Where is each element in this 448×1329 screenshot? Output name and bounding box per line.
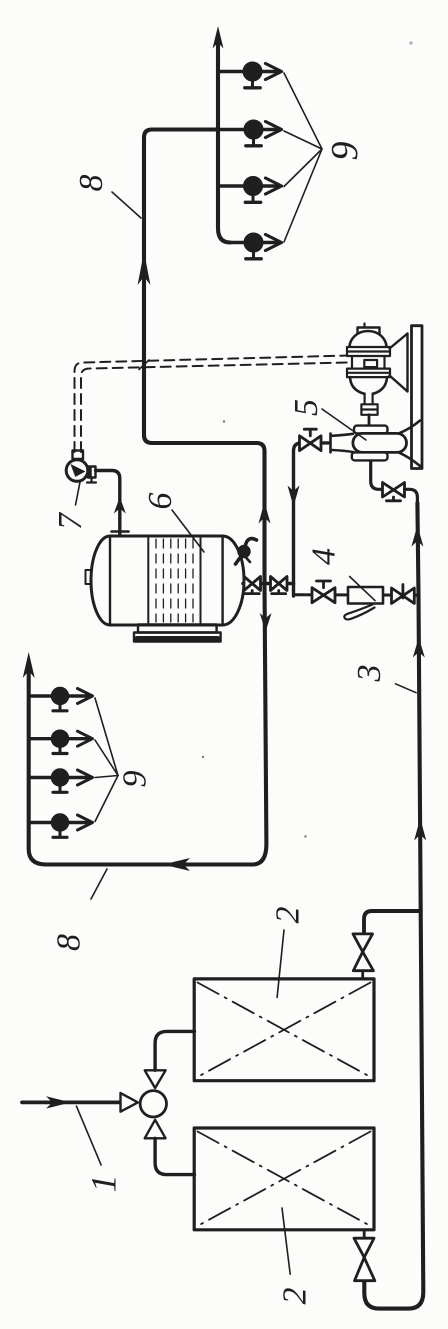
- wire: pipe 8 (upper run from tank riser to spray header): [144, 130, 265, 584]
- flow arrow (left) on return run: [163, 858, 190, 871]
- regulator 5: mid section with inner block: [352, 356, 385, 369]
- leader line for label 1: [76, 1106, 101, 1165]
- impulse line (dashed, outer) from gauge 7 to regulator 5: [75, 356, 349, 453]
- flow arrow (up) on pipe 3 lower: [414, 818, 426, 841]
- sprinkler nozzle (lower group, branch 3): [51, 769, 92, 793]
- svg-text:4: 4: [306, 548, 343, 565]
- upper cone of splitter 1: [145, 1070, 166, 1088]
- wire: branch 3 (lower group): [29, 776, 91, 779]
- regulator 5: upper flange: [347, 347, 390, 356]
- tank 6 support base: [134, 625, 221, 642]
- svg-text:9: 9: [116, 771, 153, 788]
- lower cone of splitter 1: [145, 1120, 166, 1139]
- valve VE1 above upper heat exchanger: [353, 934, 373, 979]
- flow arrow on top riser: [213, 26, 224, 49]
- mixer circle 1: [140, 1091, 166, 1117]
- wire: branch 3 (top group): [218, 184, 280, 187]
- tank 6 hatch lines: [156, 539, 193, 622]
- valve V4 on bypass: [392, 585, 415, 604]
- leader line for label 8 (lower): [91, 869, 107, 899]
- sprinkler nozzle (lower group, branch 4): [51, 814, 92, 838]
- flange tick on tank nozzle: [112, 530, 129, 533]
- svg-text:2: 2: [277, 1288, 314, 1305]
- wire: raw water inlet line: [22, 1101, 121, 1105]
- leader line for label 7: [76, 482, 81, 505]
- tank 6 hatch band edges: [148, 538, 200, 624]
- flow arrow (down) below junction: [260, 613, 272, 632]
- sprinkler nozzle (top group, branch 2): [244, 120, 282, 146]
- sprinkler nozzle (top group, branch 3): [244, 177, 282, 203]
- wire: branch 4 (top group): [229, 241, 280, 244]
- wire: spray header riser (top group): [218, 42, 230, 243]
- regulator 5: packing block: [361, 404, 377, 415]
- svg-text:6: 6: [142, 493, 179, 510]
- leader line for label 3: [396, 684, 417, 693]
- wire: bypass line with pressure reducer 4: [294, 593, 419, 597]
- wire: branch 4 (lower group): [29, 821, 91, 824]
- inlet nozzle cone 1: [121, 1093, 138, 1112]
- pressure regulator 5: wall plate: [412, 326, 423, 469]
- tank 6 cap joint lines: [110, 536, 223, 625]
- valve V6 below regulator: [383, 483, 405, 501]
- pressure gauge 7: [66, 451, 96, 483]
- svg-text:7: 7: [52, 511, 89, 530]
- wire: pipe 3 main riser: [364, 503, 423, 1309]
- flow arrow (up) on pipe 3 at level of bypass: [413, 638, 425, 658]
- flow arrow (up) gauge riser: [114, 497, 126, 514]
- flow arrow on inlet line: [46, 1096, 71, 1108]
- wire: branch 1 (top group): [218, 70, 280, 73]
- regulator 5: valve body bottom flange bar: [352, 452, 388, 460]
- wire: branch 2 (lower group): [29, 737, 91, 740]
- leader lines to label 9 (top group): [284, 73, 322, 242]
- wire: valve V6 to pipe 3 top elbow: [405, 489, 418, 505]
- regulator 5: funnel from actuator to wall plate: [390, 334, 408, 392]
- sprinkler nozzle (top group, branch 1): [243, 62, 282, 88]
- regulator 5: lower flange: [347, 369, 390, 378]
- heat exchanger 2 (lower) diagonals: [198, 1132, 371, 1227]
- sprinkler nozzle (lower group, branch 1): [51, 687, 92, 711]
- wire: splitter to upper heat exchanger: [155, 1031, 194, 1070]
- leader line for label 2 (lower): [282, 1208, 290, 1274]
- svg-text:8: 8: [73, 175, 110, 192]
- svg-text:5: 5: [288, 399, 325, 416]
- valve V2 at tank outlet: [271, 577, 288, 594]
- regulator 5: valve body capsule: [353, 433, 407, 452]
- tank 6 left nub: [86, 570, 92, 584]
- regulator 5: stem to valve body: [368, 415, 371, 426]
- cock on tank right end: [236, 539, 257, 564]
- valve V3 on bypass: [312, 581, 335, 603]
- wire: tank outlet junction line: [243, 582, 294, 586]
- svg-text:8: 8: [51, 934, 88, 951]
- pressure reducer 4 body: [348, 587, 383, 604]
- svg-text:3: 3: [351, 665, 388, 683]
- regulator 5: lower bowl: [350, 377, 387, 394]
- regulator 5: valve body top flange bar: [354, 426, 388, 434]
- impulse line (dashed, inner): [81, 363, 349, 453]
- flow arrow (up) on riser to pipe 8: [259, 502, 271, 524]
- svg-text:9: 9: [324, 142, 366, 161]
- sprinkler nozzle (lower group, branch 2): [51, 730, 92, 754]
- valve V1 at tank outlet: [244, 577, 261, 594]
- flow arrow on pipe 8 vertical: [138, 252, 151, 286]
- leader line for label 4: [350, 577, 375, 601]
- regulator 5: inlet trumpet: [331, 434, 354, 453]
- wire: branch 2 (top group): [218, 128, 280, 131]
- scan speck dots: [202, 41, 413, 838]
- tank 6 shell: [91, 536, 244, 625]
- svg-text:2: 2: [270, 907, 307, 924]
- regulator 5: actuator stem: [365, 394, 373, 405]
- wire: regulator body to pipe 3 elbow: [371, 461, 384, 489]
- flow arrow on lower-left riser top: [23, 652, 35, 678]
- heat exchanger 2 (lower) shell: [194, 1128, 374, 1230]
- heat exchanger 2 (upper) shell: [194, 979, 374, 1081]
- wire: regulator feed down-pipe (from regulator outlet to bypass tee): [294, 443, 331, 596]
- pressure reducer 4 handle hook: [344, 605, 374, 620]
- flow arrow (up) on pipe 3 top: [411, 526, 423, 547]
- flow arrow (down) on regulator outlet pipe: [288, 486, 300, 507]
- wire: branch from pipe 3 to heat exchanger 2 (upper): [364, 911, 421, 933]
- crossing jog of impulse line over pipe 8: [139, 360, 149, 370]
- regulator 5: outlet funnel to wall plate: [399, 421, 420, 467]
- valve VE2 below lower heat exchanger: [354, 1230, 375, 1281]
- leader line for label 8 (upper): [112, 192, 141, 218]
- wire: splitter to lower heat exchanger: [155, 1138, 194, 1174]
- leader line for label 5: [322, 409, 366, 440]
- heat exchanger 2 (upper) diagonals: [198, 983, 371, 1078]
- regulator 5: actuator cap: [358, 328, 380, 336]
- svg-text:1: 1: [84, 1175, 124, 1193]
- regulator 5: actuator dome: [350, 331, 387, 348]
- valve V5 at regulator inlet side: [300, 429, 322, 450]
- wire: riser from junction down to lower return loop: [29, 584, 267, 865]
- leader line for label 2 (upper): [277, 930, 284, 998]
- sprinkler nozzle (top group, branch 4): [244, 233, 282, 259]
- wire: branch 1 (lower group): [29, 694, 91, 697]
- leader lines to label 9 (lower group): [95, 698, 118, 822]
- leader line for label 6: [172, 510, 204, 552]
- wire: gauge 7 to tank nozzle: [96, 471, 120, 536]
